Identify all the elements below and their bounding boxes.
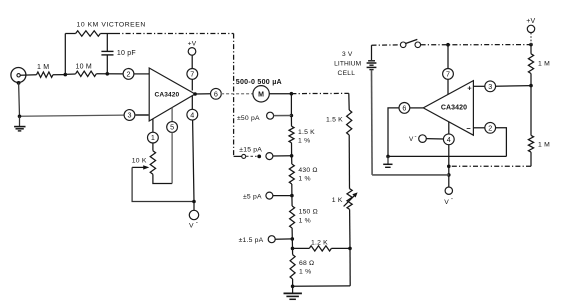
pin 2 of U2 [485,122,496,133]
svg-text:500-0 500 µA: 500-0 500 µA [236,78,282,86]
wire R1M to node F [530,74,532,86]
wire node to R 1.5K [290,116,292,127]
wire 50pA terminal to chain [274,115,292,117]
node D junction (1.2K tap) [291,247,295,251]
svg-text:±15 pA: ±15 pA [239,146,262,153]
svg-text:V: V [444,199,449,206]
svg-text:1 %: 1 % [299,269,311,276]
node C junction [290,92,294,96]
wire R 10M to pin 2 [96,73,123,75]
svg-text:±1.5 pA: ±1.5 pA [239,237,264,244]
node input ground junction [18,115,22,119]
svg-text:CELL: CELL [338,70,356,77]
pin 4 of U1 [187,109,198,120]
wire U2 apex to pin 6 [410,107,424,109]
op-amp U1 triangle [149,68,195,121]
resistor 1 M upper right [528,54,533,74]
svg-text:10 pF: 10 pF [117,50,136,57]
node E junction [348,247,352,251]
wire U1 bottom edge to pin5 [171,108,173,122]
wire +V to pin7 [191,55,193,68]
wire 5pA terminal to chain [273,195,292,197]
node A junction [64,73,68,77]
input connector J1 [11,68,26,85]
svg-text:-: - [196,219,198,226]
wire pin3 to U1 [135,114,149,116]
terminal V- right [445,187,452,194]
wire output rail to pin2 feedback [388,155,506,157]
svg-text:68 Ω: 68 Ω [299,260,314,267]
wire supply node to pin 7 U2 [447,45,449,69]
switch S1 contact right [415,42,421,48]
wire node to R 150 [291,196,293,206]
svg-text:1 M: 1 M [37,64,49,71]
potentiometer 1 K [347,189,352,210]
svg-text:-: - [415,133,417,140]
resistor 1.2 K [309,246,331,251]
svg-text:2: 2 [488,123,492,132]
wire node D to R 1.2K [293,247,310,249]
pin 5 of U1 [167,122,178,133]
svg-text:±50 pA: ±50 pA [237,115,260,122]
wire R150 to node 1.5pA [291,228,293,239]
resistor 1 M [37,72,54,77]
pot 1K arrow [344,192,358,206]
node 1.5pA junction [291,237,295,241]
svg-text:1.5 K: 1.5 K [298,129,315,136]
wire right chain top down [348,93,350,110]
svg-text:7: 7 [190,70,194,79]
capacitor 10 pF bottom stem [106,55,108,74]
wire battery minus rail [372,174,449,176]
wire R1.5K right to pot [348,135,350,189]
switch wiper dashes [246,155,257,157]
resistor 1 M lower right [528,135,533,152]
svg-text:150 Ω: 150 Ω [299,209,318,216]
svg-text:430 Ω: 430 Ω [298,167,317,174]
wire pin1 to pot 10K [152,143,154,151]
wire node F down to R 1M lower [530,86,532,136]
svg-text:2: 2 [127,70,131,79]
wire U1 bottom edge to pin4 [191,96,193,110]
wire feedback corner down [233,34,235,157]
svg-text:-: - [451,196,453,203]
resistor 10 M [76,71,97,76]
wire feedback dashed to corner [115,33,234,35]
node ground junction [291,285,295,289]
svg-text:±5 pA: ±5 pA [243,194,262,201]
pin 7 of U2 [443,69,454,80]
terminal +-1.5 pA [268,236,275,243]
wire pin7 to U1 top edge [191,79,193,90]
resistor 1.5 K right [347,110,352,135]
wire junction to V- terminal [193,202,195,211]
wire pin6 left and down [388,108,399,156]
node 15pA junction [290,154,294,158]
svg-text:6: 6 [214,89,218,98]
svg-text:4: 4 [447,135,451,144]
svg-text:3 V: 3 V [342,51,353,58]
svg-text:+V: +V [526,18,535,25]
capacitor 10 pF plates [101,51,113,55]
wire bottom right chain to ground node [293,285,351,287]
wire U2 bottom edge to pin4 [448,122,450,134]
switch S1 contact left [400,42,406,48]
switch wiper arrow dot [257,155,261,159]
wire node A up to feedback [64,34,66,75]
switch wiper contact circle [242,154,246,158]
pin 2 of U1 [123,69,134,80]
capacitor 10 pF top stem [106,34,108,52]
wire input connector down [18,83,21,117]
wire pin6 to meter [221,93,252,95]
wire R1M lower down [530,152,532,166]
wire pin7 U2 to triangle [447,79,449,94]
wire V- terminal to pin 4 [426,138,444,140]
wire U2 to pin 3 [473,85,485,87]
node pin4 battery junction [447,173,451,177]
ground G1 [14,116,25,131]
meter M 500-0 500 uA [253,86,269,102]
svg-text:V: V [409,136,414,143]
svg-text:1 %: 1 % [298,138,310,145]
pin 4 of U2 [443,134,454,145]
svg-text:10 K: 10 K [132,158,147,165]
node U1 output apex [193,92,197,96]
wire node D to R 68 [292,248,294,254]
wire node C dashed to right chain [291,92,348,94]
node 50pA junction [290,114,294,118]
wire node F to pin 3 right [495,85,531,88]
wire pin5 down [171,132,173,183]
op-amp U2 triangle [423,81,473,136]
terminal +V left [188,48,196,56]
node B junction (cap bottom) [106,72,110,76]
svg-text:CA3420: CA3420 [155,91,180,98]
node F junction (divider mid) [529,84,533,88]
svg-text:1 M: 1 M [538,142,550,149]
svg-text:7: 7 [446,70,450,79]
pin 7 of U1 [187,69,198,80]
wire U2 to pin 2 [473,127,485,129]
potentiometer 10 K [150,151,155,175]
svg-text:1 M: 1 M [538,60,550,67]
node pin7 supply junction [446,43,450,47]
wire node E down to bottom [349,248,351,286]
resistor 430 ohm 1% [289,164,294,184]
wire input to R 1M [20,74,36,76]
wire +V node up [530,33,532,45]
wire pin2 to U1 [134,73,149,75]
resistor 150 ohm 1% [290,206,295,228]
svg-text:1.5 K: 1.5 K [326,117,343,124]
wire battery minus down [371,70,374,175]
wire U1 bottom edge to pin1 [152,119,154,132]
wire switch to +V node [421,44,531,46]
wire R1.2K to right chain [331,247,350,249]
svg-text:4: 4 [190,110,194,119]
terminal +-15 pA [266,153,273,160]
wire gnd rail to pin 3 [20,115,125,116]
wire R 1M to node A [53,74,65,76]
svg-text:1: 1 [151,133,155,142]
terminal +-50 pA [267,112,274,119]
resistor 1.5 K 1% [289,126,294,143]
pin 3 of U1 [124,110,135,121]
svg-text:CA3420: CA3420 [441,105,467,112]
node 5pA junction [290,194,294,198]
wire pin4 down to V- rail [193,120,194,202]
svg-text:1 K: 1 K [332,197,343,204]
wire meter to node C [269,93,291,95]
svg-text:1 %: 1 % [299,217,311,224]
svg-text:10 M: 10 M [76,64,92,71]
svg-text:1 %: 1 % [298,176,310,183]
wire feedback corner to wiper [234,155,242,157]
wire R1.5K to node 15pA [291,143,293,156]
svg-text:5: 5 [170,123,174,132]
wire battery plus to switch [372,44,401,46]
pin 6 of U2 [399,103,410,114]
svg-text:+V: +V [188,40,197,47]
wire feedback to R victoreen [65,33,75,35]
svg-text:V: V [189,222,194,229]
svg-text:LITHIUM: LITHIUM [334,60,361,67]
wire apex to pin 6 [195,93,211,95]
terminal +V right [527,25,534,32]
battery 3V lithium cell [367,45,377,69]
wire +V node to R 1M top [530,45,532,54]
wire pot bottom jog to pin5 wire [153,174,172,183]
pin 6 of U1 [211,88,222,99]
wire 15pA terminal to chain [273,155,292,157]
wire 1.5pA terminal to chain [275,238,292,240]
ground G3 small [383,156,392,167]
svg-text:−: − [466,124,471,133]
pot 10K wiper arrow [132,165,149,169]
svg-text:M: M [258,92,264,99]
resistor 68 ohm 1% [290,255,295,279]
pin 1 of U1 [148,132,159,143]
node V- left junction [192,200,196,204]
node U2 output junction [386,155,390,159]
wire victoreen to cap top node [100,33,115,35]
svg-text:6: 6 [402,104,406,113]
terminal V- pin4 input [419,135,427,143]
svg-text:3: 3 [488,82,492,91]
wire node C down [290,94,292,116]
wire node to node D [291,239,293,249]
wire pot 1K down to node E [349,209,351,248]
pin 3 of U2 [485,81,496,92]
switch S1 lever [405,39,417,43]
terminal V- left [189,210,198,219]
svg-text:+: + [467,83,472,92]
node +V right junction [529,43,533,47]
resistor 10 KM VICTOREEN [76,31,101,36]
wire pin2 feedback right and down [495,128,506,157]
wire node to R 430 [291,156,293,164]
wire R430 to node 5pA [291,184,293,196]
node pin4 divider junction [447,165,451,169]
terminal +-5 pA [266,192,273,199]
wire divider bottom dashed to V- rail [448,165,531,167]
wire wiper down and right to V- node [132,167,194,201]
ground G2 [284,286,302,299]
svg-text:1.2 K: 1.2 K [311,239,328,246]
wire pin4 down to V- terminal [448,145,450,188]
svg-text:3: 3 [128,111,132,120]
svg-text:10 KM VICTOREEN: 10 KM VICTOREEN [77,22,146,29]
wire node A to R 10M [65,73,75,75]
wire R68 to ground node [292,279,294,286]
